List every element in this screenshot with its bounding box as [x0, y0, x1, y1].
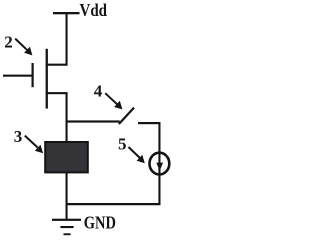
- arrow from label 3 to resistor: [25, 136, 43, 154]
- current source I5 circle: [150, 153, 170, 175]
- svg-text:4: 4: [94, 82, 103, 101]
- svg-text:GND: GND: [84, 212, 116, 233]
- wire bottom return (current source to ground node): [67, 175, 161, 206]
- resistor R3 dark box: [45, 142, 88, 172]
- wire Vdd stem to drain: [46, 14, 68, 66]
- wire source down to resistor box: [66, 93, 68, 143]
- svg-text:3: 3: [14, 127, 22, 146]
- current source I5 arrowhead: [156, 163, 163, 171]
- transistor M2 gate bar: [32, 63, 34, 87]
- svg-text:Vdd: Vdd: [80, 0, 108, 20]
- svg-text:5: 5: [118, 134, 127, 153]
- current source I5 arrow stem: [158, 152, 160, 176]
- Vdd power rail bar: [53, 12, 80, 14]
- switch S4 blade (open): [119, 108, 134, 124]
- svg-text:2: 2: [4, 32, 13, 51]
- wire resistor down to ground: [66, 172, 68, 220]
- wire switch to current source: [158, 122, 160, 153]
- arrow from label 5 to current source: [129, 147, 145, 163]
- transistor M2 source lead wire: [46, 92, 68, 94]
- ground symbol bar 3: [64, 233, 71, 235]
- arrow from label 2 to transistor gate: [15, 39, 32, 56]
- transistor M2 channel bar: [46, 49, 48, 109]
- ground symbol bar 2: [60, 226, 73, 228]
- switch S4 fixed-side stub wire: [138, 122, 161, 124]
- ground symbol bar 1: [52, 219, 81, 221]
- transistor M2 gate lead wire: [3, 75, 32, 77]
- arrow from label 4 to switch: [105, 93, 122, 109]
- wire switch branch (left segment): [66, 120, 120, 122]
